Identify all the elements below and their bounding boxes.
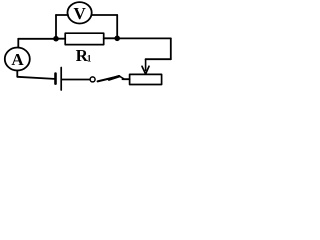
wire right side vertical <box>170 38 172 59</box>
svg-text:V: V <box>73 4 86 23</box>
battery negative plate (short thick) <box>54 74 57 84</box>
resistor R1 body <box>65 33 104 44</box>
rheostat wiper arrow shaft <box>145 59 147 70</box>
switch blade (open) <box>98 76 120 81</box>
switch pivot terminal <box>90 77 95 82</box>
wire top rail left segment to voltmeter <box>56 14 68 16</box>
wire top-left vertical from top rail down to left node <box>55 15 57 39</box>
wire battery to switch <box>62 79 90 81</box>
voltmeter U-V circle <box>68 2 92 23</box>
junction node B (right) <box>114 36 120 42</box>
wire rail from node B to right side <box>117 37 171 39</box>
wire resistor right lead <box>104 37 118 39</box>
wire left rail to ammeter corner <box>18 38 56 40</box>
svg-text:A: A <box>11 50 24 69</box>
junction node A (left) <box>53 36 59 42</box>
switch blade thick end <box>109 76 119 79</box>
wire to rheostat wiper arrow <box>146 58 171 60</box>
wire left rail from node A to resistor <box>56 38 65 40</box>
battery positive plate (long thin) <box>60 68 62 91</box>
rheostat body <box>130 74 162 84</box>
rheostat stub wire <box>123 78 130 80</box>
wire bottom rail to battery <box>17 77 54 79</box>
switch blade end hook <box>119 76 123 78</box>
wire top rail right segment from voltmeter <box>92 14 118 16</box>
wire top-right vertical down to right node <box>116 15 118 38</box>
wire ammeter bottom stub <box>16 71 18 77</box>
rheostat wiper arrowhead <box>142 66 149 74</box>
wire down into ammeter <box>17 39 19 48</box>
svg-text:1: 1 <box>87 54 92 64</box>
ammeter U-A circle <box>5 48 30 71</box>
